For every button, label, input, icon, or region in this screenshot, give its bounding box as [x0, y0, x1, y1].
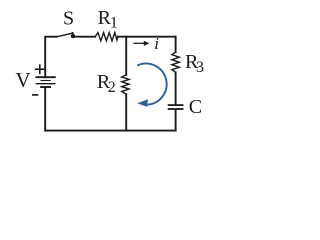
svg-text:1: 1: [110, 15, 118, 32]
svg-text:C: C: [189, 96, 202, 118]
svg-text:S: S: [63, 8, 74, 30]
svg-text:i: i: [154, 34, 159, 53]
svg-text:2: 2: [108, 79, 116, 96]
svg-text:V: V: [16, 68, 31, 92]
svg-text:3: 3: [196, 59, 204, 76]
